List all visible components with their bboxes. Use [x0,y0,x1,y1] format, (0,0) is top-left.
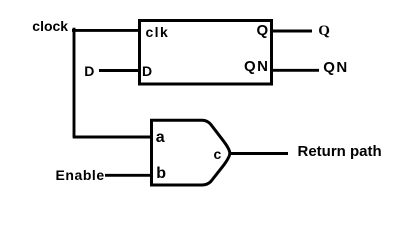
label QN [323,62,349,74]
pin label Q [257,25,269,37]
flip-flop U1 body [140,21,272,85]
pin label c [214,148,222,160]
and-gate G1 body [152,120,230,185]
label clock [32,20,68,32]
pin label b [156,168,166,180]
wire D input [99,69,139,72]
label D [84,65,94,77]
wire a input [73,136,151,139]
label Return path [298,146,382,158]
wire c output [229,152,288,155]
wire clock horizontal [72,29,139,32]
label Q [318,25,330,37]
wire clock vertical [73,28,76,138]
pin label D [142,65,152,77]
pin label clk [146,26,170,38]
wire QN output [272,69,319,72]
label Enable [56,169,105,181]
wire Enable input [105,174,151,177]
pin label a [156,132,165,144]
wire Q output [272,30,312,33]
pin label QN [244,61,270,73]
